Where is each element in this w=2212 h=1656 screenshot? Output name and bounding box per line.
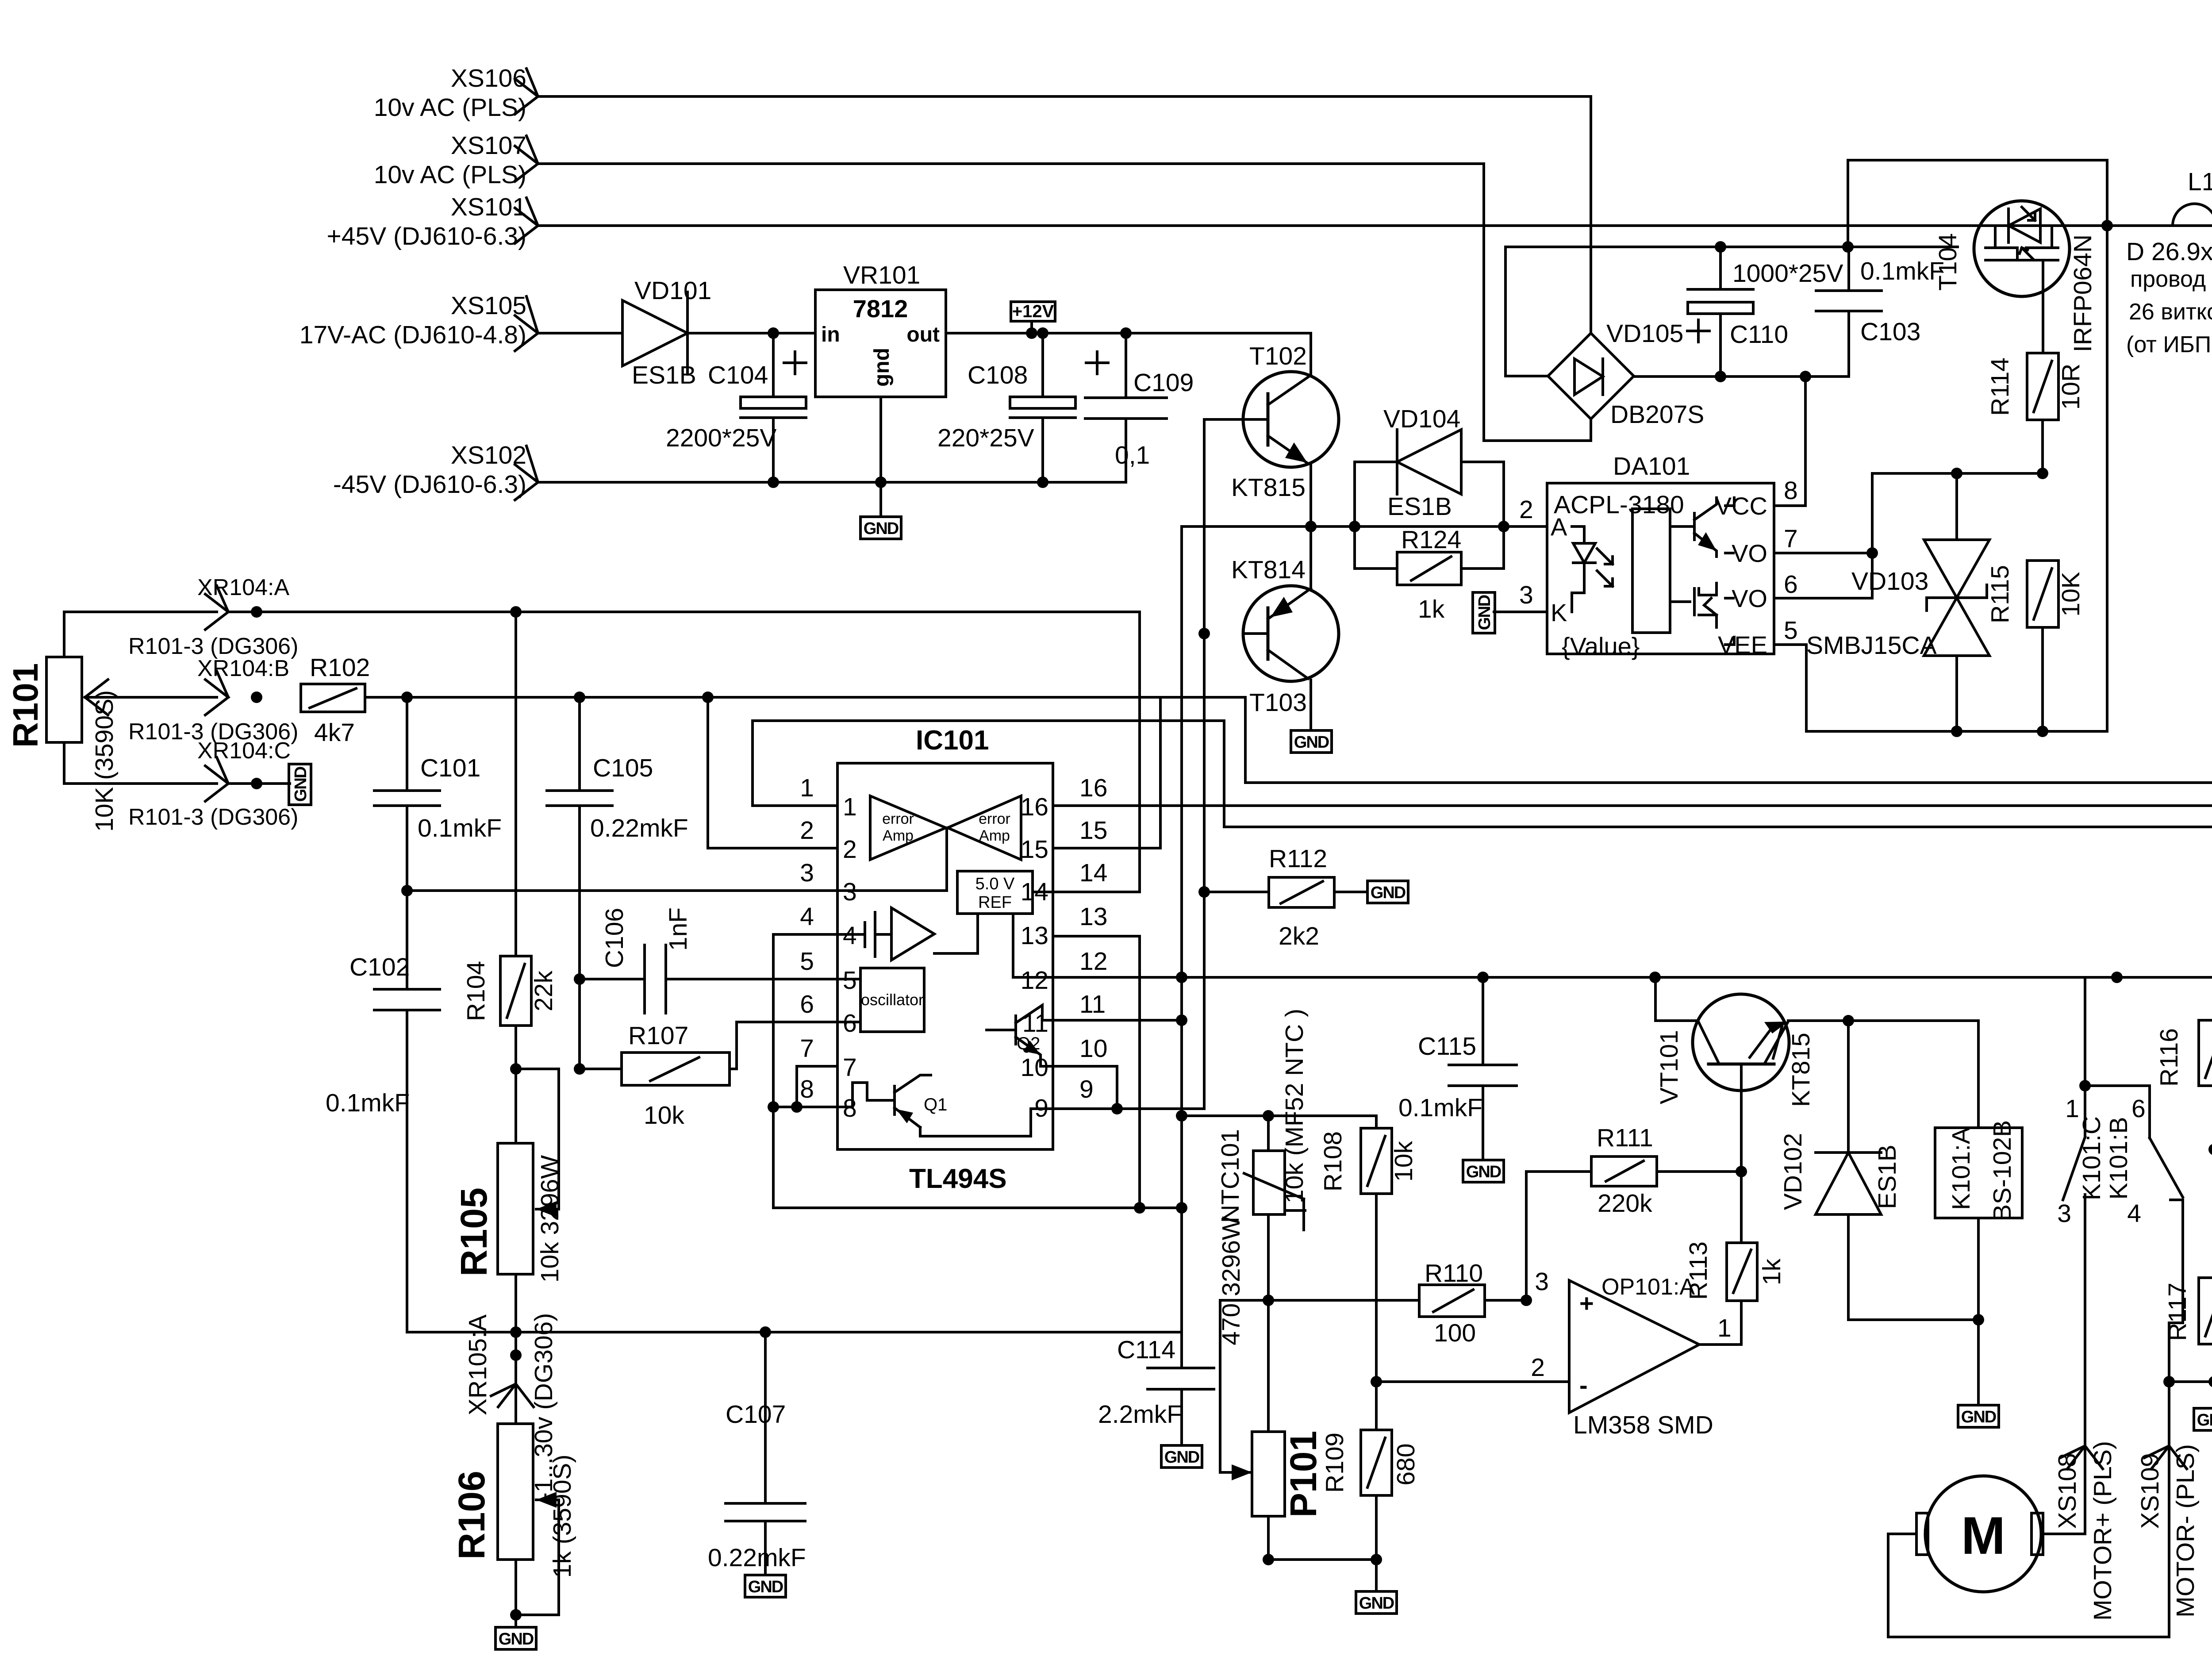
svg-text:XS109: XS109 [2136,1453,2164,1529]
svg-text:4: 4 [843,922,857,950]
svg-text:12: 12 [1021,966,1048,995]
node NTC P101 R110 [1263,1295,1274,1306]
wire T102 base to T103 base column [1204,419,1244,1109]
svg-text:2: 2 [1531,1353,1545,1382]
wire R117 C112 line [2169,1380,2212,1383]
svg-text:error: error [979,811,1010,827]
capacitor C103 [1816,247,1944,377]
svg-text:1nF: 1nF [664,907,692,951]
svg-text:BS-102B: BS-102B [1988,1120,2016,1221]
svg-text:VT101: VT101 [1655,1030,1683,1104]
svg-text:R114: R114 [1986,357,2014,416]
svg-text:680: 680 [1392,1443,1420,1485]
wire +45V main rail [538,224,2212,227]
svg-text:R106: R106 [451,1471,492,1560]
internal chip box [1632,509,1670,633]
svg-text:1k (3590S): 1k (3590S) [548,1455,576,1578]
svg-text:C102: C102 [349,953,410,981]
wire pin1 up and over [753,721,1224,806]
svg-text:OP101:A: OP101:A [1601,1274,1695,1300]
svg-text:IC101: IC101 [916,725,989,756]
bridge rectifier VD105 [1548,319,1704,429]
svg-text:VO: VO [1732,584,1767,612]
diode VD104 [1355,405,1504,521]
wire R102 output line [365,696,1245,699]
svg-text:10K: 10K [2057,572,2085,616]
wire XR104:A line [228,611,1140,613]
svg-text:XR105:A: XR105:A [464,1314,492,1415]
svg-text:A: A [1551,513,1567,541]
svg-text:7812: 7812 [853,295,908,323]
body diode on rail [2008,209,2040,242]
svg-text:NTC101: NTC101 [1216,1129,1244,1223]
svg-text:7: 7 [800,1034,814,1063]
svg-text:ACPL-3180: ACPL-3180 [1554,491,1684,519]
svg-text:5: 5 [800,947,814,976]
svg-text:12: 12 [1079,947,1107,976]
resistor R104 [462,612,558,1143]
resistor R111 [1591,1124,1741,1218]
svg-text:R117: R117 [2163,1283,2192,1341]
wire bridge plus line [1634,375,1849,378]
svg-text:T104: T104 [1934,233,1962,291]
ground R112 [1367,881,1408,903]
svg-text:Amp: Amp [883,827,914,844]
svg-text:MOTOR- (PLS): MOTOR- (PLS) [2171,1444,2200,1618]
svg-text:LM358 SMD: LM358 SMD [1573,1411,1713,1439]
svg-text:10R: 10R [2057,364,2085,410]
capacitor C106 [574,907,692,1013]
svg-text:8: 8 [843,1094,857,1122]
motor M [1888,1476,2169,1637]
wire XS105 to VD101 [538,332,622,334]
svg-text:1: 1 [843,793,857,821]
resistor R112 [1198,845,1367,950]
svg-text:VD104: VD104 [1383,405,1460,433]
svg-text:0.1mkF: 0.1mkF [1860,257,1944,285]
ground opto K pin [1473,592,1495,633]
svg-text:R102: R102 [310,653,370,682]
svg-text:1k: 1k [1418,595,1445,623]
wire bottom rail [407,1331,1182,1333]
svg-text:R101-3 (DG306): R101-3 (DG306) [128,804,298,830]
svg-text:KT814: KT814 [1231,556,1306,584]
wire feedback line from R102 node to R116 [1245,697,2212,783]
resistor R109 [1321,1194,1420,1591]
svg-text:C110: C110 [1730,320,1788,349]
tvs diode VD103 [1806,473,1989,731]
svg-text:11: 11 [1022,1009,1048,1037]
svg-text:VD105: VD105 [1606,319,1683,348]
svg-text:ES1B: ES1B [1873,1145,1901,1209]
relay contact K101:B [2085,1086,2183,1323]
internal mosfet [1670,588,1694,615]
svg-text:7: 7 [1784,525,1798,553]
svg-text:4: 4 [2127,1199,2141,1228]
transistor T102 [1231,333,1339,526]
svg-text:15: 15 [1021,835,1048,864]
svg-text:KT815: KT815 [1787,1033,1815,1107]
svg-text:XR104:A: XR104:A [197,575,289,600]
svg-text:R108: R108 [1319,1131,1347,1191]
svg-text:10k: 10k [1390,1141,1418,1182]
resistor R107 [574,1022,737,1130]
diode VD101 [622,277,711,389]
svg-text:C108: C108 [968,361,1028,389]
svg-text:0.1mkF: 0.1mkF [326,1089,410,1117]
svg-text:13: 13 [1021,922,1048,950]
wire VR101 gnd to GND [879,397,882,517]
svg-text:провод 1.3 мм: провод 1.3 мм [2130,266,2212,292]
svg-text:-45V (DJ610-6.3): -45V (DJ610-6.3) [333,470,526,499]
wire R111 loop [1526,1172,1591,1300]
svg-text:1000*25V: 1000*25V [1732,259,1843,288]
svg-text:26 витков: 26 витков [2129,299,2212,325]
connector XS101 [327,193,538,250]
connector XR104:C [197,738,291,801]
svg-text:C107: C107 [726,1400,786,1429]
svg-text:C115: C115 [1418,1032,1476,1060]
connector XS105 [300,292,538,351]
ref regulator [957,871,1033,914]
pin stubs left [753,804,837,807]
wire top jog line [1848,160,2107,731]
svg-text:gnd: gnd [870,348,894,387]
potentiometer P101 [1217,1216,1324,1560]
resistor R114 [1986,353,2085,473]
svg-text:M: M [1961,1506,2005,1565]
node plus input [1521,1295,1532,1306]
wire pin2 from R102 node [707,697,709,848]
wire VR101 out +12V line [946,332,1311,334]
node R104 R105 junction [510,1063,522,1075]
svg-text:R105: R105 [453,1187,495,1276]
svg-text:C101: C101 [420,754,480,782]
wire XS102 -45V line [538,481,1126,484]
inductor L101 [2173,168,2212,226]
svg-text:T103: T103 [1249,688,1307,717]
drain/source bars [1995,226,2052,248]
svg-text:C114: C114 [1117,1336,1175,1364]
node T103 base [1198,628,1210,639]
wire R105 wiper [516,1069,559,1209]
svg-text:3: 3 [800,859,814,887]
node T102/T103 emitters [1305,521,1317,532]
node pin11 to collector column [1180,526,1183,1332]
svg-text:REF: REF [978,893,1012,912]
wire XS107 to bridge bottom [538,164,1591,441]
svg-text:C105: C105 [593,754,653,782]
capacitor C109 [1085,327,1194,482]
wire bridge minus to top line [1505,247,1958,376]
capacitor C110 [1687,247,1843,377]
node R111 R113 emitter [1736,1166,1747,1177]
internal transistor [1670,513,1694,540]
wire VT101 collector to rail [1655,977,1698,1021]
svg-text:22k: 22k [530,971,558,1011]
svg-text:TL494S: TL494S [909,1164,1007,1194]
svg-text:6: 6 [800,990,814,1018]
connector XS109 [2136,1444,2200,1618]
svg-text:R124: R124 [1401,526,1461,554]
capacitor C114 [1098,1336,1214,1468]
wire pin8 pin13 common [773,1206,1182,1209]
svg-text:2k2: 2k2 [1279,922,1319,950]
svg-text:470 3296W: 470 3296W [1217,1216,1245,1345]
svg-text:9: 9 [1034,1094,1048,1122]
wire source return line [1806,730,2107,733]
capacitor C107 [708,1332,806,1597]
regulator VR101 [815,261,946,397]
ic IC101 box [837,725,1053,1194]
svg-text:0.1mkF: 0.1mkF [418,814,502,842]
svg-text:DB207S: DB207S [1610,400,1704,429]
svg-text:KT815: KT815 [1231,473,1306,502]
wire pin1 sense line [1224,721,2212,827]
node C104 top [768,327,779,339]
wire pin16 sense line [1053,806,2212,869]
capacitor C105 [547,697,688,1069]
potentiometer R106 [451,1424,576,1649]
svg-text:2: 2 [1519,496,1533,524]
transistor Q2 [987,1005,1053,1066]
svg-text:MOTOR+ (PLS): MOTOR+ (PLS) [2089,1441,2117,1621]
potentiometer R105 [453,1143,564,1332]
svg-text:T102: T102 [1249,342,1307,370]
pin stubs right [1053,804,1075,807]
svg-text:4k7: 4k7 [314,718,355,747]
svg-text:Q1: Q1 [924,1095,947,1114]
svg-text:SMBJ15CA: SMBJ15CA [1806,631,1937,660]
svg-text:R112: R112 [1269,845,1327,873]
svg-text:3: 3 [1535,1268,1549,1296]
resistor R117 [2163,1278,2212,1430]
wire gate to R114 [2042,296,2044,353]
svg-text:0.22mkF: 0.22mkF [590,814,688,842]
svg-text:(от ИБП компа): (от ИБП компа) [2126,332,2212,357]
svg-text:R104: R104 [462,961,490,1021]
capacitor C101 [374,697,502,891]
svg-text:out: out [906,323,940,346]
svg-text:R101: R101 [6,663,45,748]
capacitor C102 [326,885,440,1332]
wire error amps to pin3 [837,828,947,891]
svg-text:XR104:B: XR104:B [197,656,289,681]
capacitor C104 [666,333,806,482]
svg-text:-: - [1579,1371,1588,1399]
svg-text:10: 10 [1021,1053,1048,1082]
svg-text:oscillator: oscillator [861,991,924,1009]
wire minus input line [1375,1380,1569,1383]
svg-text:14: 14 [1079,859,1107,887]
svg-text:VD103: VD103 [1851,567,1928,596]
transistor VT101 [1655,994,1815,1172]
svg-text:11: 11 [1079,990,1106,1018]
resistor R102 [301,653,370,747]
node pin12 line dots [1477,972,1489,983]
svg-text:XR104:C: XR104:C [197,738,291,764]
wire sense node line [1220,1299,1419,1302]
oscillator [860,968,924,1032]
resistor R108 [1319,1116,1418,1194]
opto driver DA101 [1547,452,1774,660]
svg-text:3: 3 [843,878,857,906]
svg-text:VR101: VR101 [843,261,920,289]
svg-text:0.1mkF: 0.1mkF [1398,1094,1482,1122]
dtc comparator [891,908,934,960]
svg-text:0,1: 0,1 [1115,441,1150,469]
wire motor minus [2169,1323,2183,1637]
resistor R115 [1986,561,2085,731]
svg-text:VD101: VD101 [634,277,711,305]
ground T103 emitter [1291,730,1332,753]
svg-text:C109: C109 [1133,369,1194,397]
svg-text:R109: R109 [1321,1433,1349,1493]
svg-text:2: 2 [800,816,814,845]
svg-text:C103: C103 [1860,318,1920,346]
svg-text:10k 3296W: 10k 3296W [536,1155,564,1283]
svg-text:1: 1 [1717,1314,1732,1342]
svg-text:+45V (DJ610-6.3): +45V (DJ610-6.3) [327,222,527,250]
connector XS108 [2053,1441,2117,1621]
svg-text:R111: R111 [1597,1124,1653,1152]
wire rail corner to C114 [1180,1332,1183,1368]
svg-text:K: K [1551,599,1567,626]
error amp 2 [948,796,1021,860]
svg-text:10K (3590S): 10K (3590S) [90,690,119,832]
resistor R116 [2155,783,2212,1278]
svg-text:6: 6 [2131,1095,2146,1123]
svg-text:R113: R113 [1684,1241,1713,1300]
svg-text:VCC: VCC [1715,492,1767,520]
connector XS107 [374,131,538,189]
resistor R110 [1419,1259,1526,1347]
connector XR104:A [197,575,289,630]
svg-text:error: error [882,811,914,827]
svg-text:in: in [821,323,840,346]
connector XR104:B [197,656,289,715]
thermistor NTC101 [1216,1009,1309,1300]
svg-text:2: 2 [843,835,857,864]
resistor R113 [1684,1172,1786,1301]
svg-text:10k: 10k [644,1101,684,1130]
relay contact K101:C [2057,977,2106,1534]
svg-text:K101:B: K101:B [2104,1117,2133,1200]
svg-text:13: 13 [1079,903,1107,931]
svg-text:16: 16 [1021,793,1048,821]
mosfet T104 [1934,201,2097,352]
error amp 1 [870,796,946,860]
wire NTC line [1182,1114,1376,1117]
svg-text:220*25V: 220*25V [937,424,1034,452]
svg-text:R116: R116 [2155,1028,2183,1087]
opamp OP101:A [1531,1268,1731,1439]
svg-text:16: 16 [1079,774,1107,802]
svg-text:1k: 1k [1758,1258,1786,1285]
svg-text:C106: C106 [600,908,629,968]
svg-text:7: 7 [843,1053,857,1082]
ground under VR101 [860,517,901,539]
wire gate line [1872,472,2043,475]
svg-text:L101: L101 [2188,168,2212,196]
svg-text:5.0 V: 5.0 V [975,875,1015,893]
svg-text:10v AC (PLS): 10v AC (PLS) [374,161,526,189]
wire VT101 emitter line [1788,1019,1978,1022]
svg-text:{Value}: {Value} [1562,632,1640,660]
svg-text:6: 6 [843,1009,857,1037]
svg-text:R107: R107 [628,1022,688,1050]
svg-text:10k (MF52 NTC ): 10k (MF52 NTC ) [1280,1009,1309,1203]
wire parallel loop verticals [1355,462,1504,569]
wire pin7 to pin8 [795,1066,798,1107]
transistor T103 [1231,526,1339,730]
svg-text:1: 1 [800,774,814,802]
wire pin4 vertical [772,934,775,1208]
svg-text:+: + [1579,1289,1594,1317]
svg-text:ES1B: ES1B [632,361,696,389]
wire emitter node to opto input [1183,525,1504,528]
svg-text:0.22mkF: 0.22mkF [708,1544,806,1572]
transistor Q1 [837,1075,1053,1136]
svg-text:C104: C104 [708,361,768,389]
svg-text:4: 4 [800,903,814,931]
svg-text:9: 9 [1079,1075,1094,1103]
svg-text:5: 5 [843,966,857,995]
relay coil K101:A [1935,1021,2022,1427]
svg-text:ES1B: ES1B [1387,492,1452,521]
potentiometer R101 [6,612,217,832]
svg-text:XS108: XS108 [2053,1453,2081,1529]
svg-text:220k: 220k [1598,1189,1652,1218]
svg-text:8: 8 [1784,476,1798,505]
svg-text:R115: R115 [1986,565,2014,623]
svg-text:K101:A: K101:A [1947,1127,1975,1210]
svg-text:3: 3 [2057,1199,2071,1228]
svg-text:5: 5 [1784,616,1798,645]
connector XS102 [333,441,538,500]
svg-text:K101:C: K101:C [2078,1116,2106,1200]
svg-text:P101: P101 [1283,1431,1324,1518]
svg-text:10v AC (PLS): 10v AC (PLS) [374,93,526,122]
svg-text:6: 6 [1784,570,1798,599]
diode VD102 [1779,1021,1984,1326]
internal led [1572,526,1584,543]
wire output to R113 [1699,1301,1741,1345]
svg-text:2.2mkF: 2.2mkF [1098,1400,1182,1429]
svg-text:IRFP064N: IRFP064N [2069,234,2097,352]
svg-text:VO: VO [1732,539,1767,567]
svg-text:8: 8 [800,1075,814,1103]
svg-text:R110: R110 [1425,1259,1483,1287]
ground XR104:C [289,764,311,805]
svg-text:17V-AC (DJ610-4.8): 17V-AC (DJ610-4.8) [300,321,526,349]
svg-text:VD102: VD102 [1779,1133,1807,1210]
svg-text:DA101: DA101 [1613,452,1690,480]
wire XS106 to bridge top [538,96,1591,333]
svg-text:15: 15 [1079,816,1107,845]
capacitor C108 [937,327,1108,482]
svg-text:2200*25V: 2200*25V [666,424,776,452]
svg-text:+12V: +12V [1012,302,1054,321]
connector XS106 [374,64,538,122]
power flag +12V [1011,302,1055,339]
svg-text:100: 100 [1434,1319,1476,1347]
wire VD101 to VR101 in [687,332,815,334]
svg-text:Amp: Amp [979,827,1010,844]
svg-text:14: 14 [1021,878,1048,906]
svg-text:D 26.9x14.7x11.2: D 26.9x14.7x11.2 [2126,238,2212,266]
svg-text:10: 10 [1079,1034,1107,1063]
